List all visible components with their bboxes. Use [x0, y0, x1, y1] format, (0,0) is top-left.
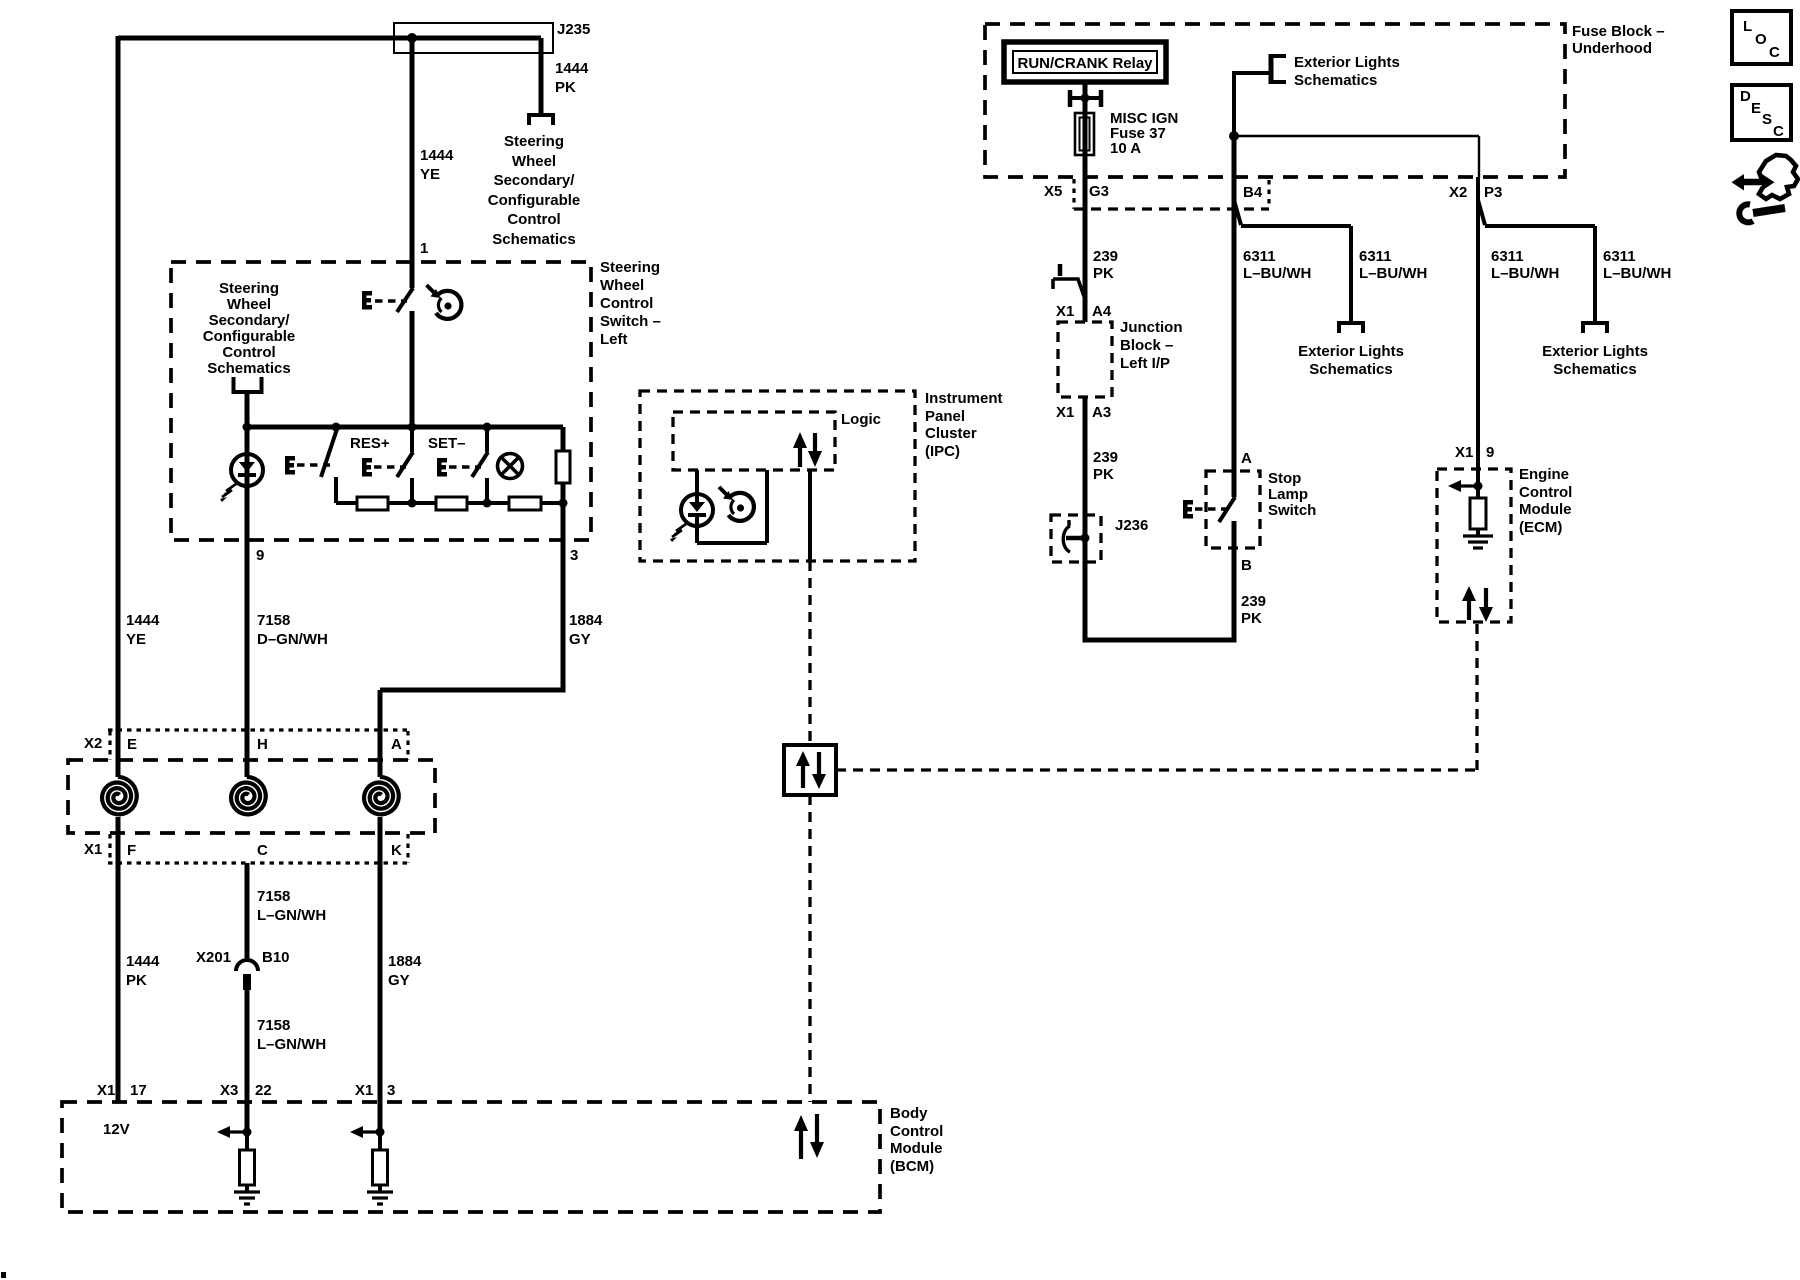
connector row X1 (F C K): [108, 861, 408, 864]
IPC gauge icon: [719, 487, 754, 521]
svg-text:9: 9: [256, 547, 264, 564]
svg-text:D: D: [1740, 88, 1751, 105]
svg-text:7158: 7158: [257, 888, 290, 905]
BCM input R network 2: [350, 1126, 393, 1204]
relay output terminal: [1068, 90, 1103, 107]
svg-text:P3: P3: [1484, 184, 1502, 201]
svg-text:A4: A4: [1092, 303, 1112, 320]
svg-text:X2: X2: [1449, 184, 1467, 201]
svg-text:X2: X2: [84, 735, 102, 752]
junction dot ladder 1: [408, 499, 417, 508]
off-page bracket to steering wheel schematics (top): [527, 115, 555, 125]
svg-text:B4: B4: [1243, 184, 1263, 201]
svg-text:SET–: SET–: [428, 435, 466, 452]
connector J235 box: [394, 23, 553, 53]
svg-text:YE: YE: [420, 166, 440, 183]
svg-text:Module: Module: [890, 1140, 943, 1157]
fuse MISC IGN 37: [1075, 113, 1094, 155]
svg-text:(IPC): (IPC): [925, 443, 960, 460]
svg-text:Cluster: Cluster: [925, 425, 977, 442]
svg-text:L–BU/WH: L–BU/WH: [1491, 265, 1559, 282]
svg-text:L–BU/WH: L–BU/WH: [1243, 265, 1311, 282]
junction dot ladder 3: [559, 499, 568, 508]
svg-text:X1: X1: [355, 1082, 373, 1099]
svg-text:Configurable: Configurable: [203, 328, 296, 345]
IPC serial wire: [808, 470, 812, 561]
logic box: [673, 412, 835, 470]
svg-text:Secondary/: Secondary/: [209, 312, 291, 329]
branch to exterior lights (right): [1485, 226, 1595, 323]
wire left main vertical 1444 YE/PK: [116, 36, 121, 777]
lamp (illumination): [498, 454, 523, 479]
coil (clockspring) 1: [102, 777, 137, 815]
svg-text:GY: GY: [388, 972, 410, 989]
wire from S1 to bus: [410, 311, 415, 427]
svg-text:C: C: [1773, 123, 1784, 140]
svg-text:H: H: [257, 736, 268, 753]
svg-text:E: E: [1751, 100, 1761, 117]
svg-text:1884: 1884: [388, 953, 422, 970]
svg-text:Schematics: Schematics: [207, 360, 290, 377]
svg-text:7158: 7158: [257, 612, 290, 629]
svg-text:(BCM): (BCM): [890, 1158, 934, 1175]
svg-text:Stop: Stop: [1268, 470, 1301, 487]
svg-text:J236: J236: [1115, 517, 1148, 534]
resistor R1: [357, 497, 388, 510]
svg-text:PK: PK: [1093, 265, 1114, 282]
svg-text:E: E: [127, 736, 137, 753]
svg-text:D–GN/WH: D–GN/WH: [257, 631, 328, 648]
svg-text:Engine: Engine: [1519, 466, 1569, 483]
junction block left IP box: [1058, 322, 1112, 397]
svg-text:239: 239: [1093, 248, 1118, 265]
svg-text:X1: X1: [1056, 404, 1074, 421]
svg-text:Wheel: Wheel: [512, 153, 556, 170]
svg-text:L–BU/WH: L–BU/WH: [1359, 265, 1427, 282]
RUN/CRANK relay box: [1004, 42, 1166, 82]
svg-text:1884: 1884: [569, 612, 603, 629]
BCM input R network 1: [217, 1126, 260, 1204]
svg-text:Schematics: Schematics: [1309, 361, 1392, 378]
svg-text:X1: X1: [84, 841, 102, 858]
gauge icon (cruise control): [427, 285, 462, 319]
svg-text:239: 239: [1093, 449, 1118, 466]
logic serial arrows: [793, 432, 822, 467]
svg-text:Steering: Steering: [504, 133, 564, 150]
resistor R3: [509, 497, 541, 510]
switch S1 (cruise on/off) blade: [397, 288, 413, 312]
svg-text:L–BU/WH: L–BU/WH: [1603, 265, 1671, 282]
steering wheel control switch box: [171, 262, 591, 540]
inline connector X201 B10: [236, 863, 258, 1132]
instrument panel cluster box: [640, 391, 915, 561]
svg-text:Exterior Lights: Exterior Lights: [1298, 343, 1404, 360]
svg-text:(ECM): (ECM): [1519, 519, 1562, 536]
svg-text:Left I/P: Left I/P: [1120, 355, 1170, 372]
svg-text:GY: GY: [569, 631, 591, 648]
svg-text:6311: 6311: [1359, 248, 1392, 265]
coil (clockspring) 2: [231, 777, 266, 815]
connector row X2 (E H A): [108, 728, 408, 731]
svg-text:Schematics: Schematics: [492, 231, 575, 248]
wire 1444 PK drop from J235: [539, 38, 544, 113]
wire bracket to B4: [1234, 71, 1271, 136]
svg-text:Block –: Block –: [1120, 337, 1173, 354]
node junction dot on J235 bus: [407, 33, 417, 43]
svg-text:S: S: [1762, 111, 1772, 128]
svg-text:PK: PK: [555, 79, 576, 96]
junction dot bus SET: [483, 423, 492, 432]
svg-text:Control: Control: [1519, 484, 1572, 501]
svg-text:Control: Control: [507, 211, 560, 228]
switch S2 (unlabeled): [321, 429, 337, 477]
svg-text:Switch –: Switch –: [600, 313, 661, 330]
svg-text:Panel: Panel: [925, 408, 965, 425]
connector row X5: [1072, 179, 1075, 209]
body control module box: [62, 1102, 880, 1212]
thin wire across fuse block to X2: [1234, 136, 1479, 178]
svg-text:22: 22: [255, 1082, 272, 1099]
svg-text:G3: G3: [1089, 183, 1109, 200]
svg-text:Exterior Lights: Exterior Lights: [1294, 54, 1400, 71]
junction dot bus S2: [332, 423, 341, 432]
svg-text:Lamp: Lamp: [1268, 486, 1308, 503]
exterior lights feed bracket (top): [1269, 54, 1274, 84]
svg-text:Switch: Switch: [1268, 502, 1316, 519]
serial data node box: [784, 745, 836, 795]
svg-text:B10: B10: [262, 949, 290, 966]
junction dot ladder 2: [483, 499, 492, 508]
resistor R2: [436, 497, 467, 510]
svg-text:Left: Left: [600, 331, 628, 348]
wire top horizontal 1444 YE feed: [118, 36, 541, 41]
svg-text:6311: 6311: [1491, 248, 1524, 265]
coil (clockspring) 3: [364, 777, 399, 815]
svg-text:Body: Body: [890, 1105, 928, 1122]
DESC icon: [1732, 85, 1791, 140]
wire bracket to bus: [245, 392, 250, 427]
svg-text:239: 239: [1241, 593, 1266, 610]
svg-text:B: B: [1241, 557, 1252, 574]
LOC icon: [1732, 11, 1791, 64]
svg-text:Steering: Steering: [219, 280, 279, 297]
svg-text:6311: 6311: [1603, 248, 1636, 265]
schematics reference bracket inside box: [203, 280, 296, 377]
svg-text:1444: 1444: [126, 612, 160, 629]
page corner dot: [1, 1272, 6, 1278]
svg-text:Underhood: Underhood: [1572, 40, 1652, 57]
svg-text:7158: 7158: [257, 1017, 290, 1034]
wire 1884 GY out of pin 3: [380, 503, 563, 690]
svg-text:PK: PK: [1241, 610, 1262, 627]
junction dot B4 branch: [1229, 131, 1239, 141]
svg-text:Secondary/: Secondary/: [494, 172, 576, 189]
svg-text:C: C: [257, 842, 268, 859]
svg-text:X5: X5: [1044, 183, 1062, 200]
svg-text:Exterior Lights: Exterior Lights: [1542, 343, 1648, 360]
svg-text:Instrument: Instrument: [925, 390, 1003, 407]
svg-text:X1: X1: [1455, 444, 1473, 461]
svg-text:Schematics: Schematics: [1294, 72, 1377, 89]
SIR coil box: [68, 760, 435, 833]
svg-text:X1: X1: [97, 1082, 115, 1099]
svg-text:Configurable: Configurable: [488, 192, 581, 209]
svg-text:Fuse Block –: Fuse Block –: [1572, 23, 1665, 40]
svg-text:A: A: [391, 736, 402, 753]
svg-text:Control: Control: [222, 344, 275, 361]
inline connector at X1 A4: [1053, 264, 1086, 302]
RIGHT SECTION: fuse block underhood: [985, 24, 1565, 177]
wire P3 down to ECM: [1476, 177, 1480, 486]
svg-text:X201: X201: [196, 949, 231, 966]
E terminal of S1: [362, 291, 372, 310]
svg-text:PK: PK: [126, 972, 147, 989]
svg-text:L–GN/WH: L–GN/WH: [257, 1036, 326, 1053]
wire B4 down to stop lamp switch: [1232, 136, 1237, 497]
splice J236: [1051, 515, 1101, 562]
svg-text:X3: X3: [220, 1082, 238, 1099]
svg-text:10 A: 10 A: [1110, 140, 1141, 157]
svg-text:Logic: Logic: [841, 411, 881, 428]
bus inside switch assembly: [247, 425, 563, 430]
svg-text:1444: 1444: [555, 60, 589, 77]
dashed serial data lines: [808, 561, 811, 745]
svg-text:Control: Control: [600, 295, 653, 312]
wire relay to fuse to G3: [1083, 82, 1088, 322]
svg-text:6311: 6311: [1243, 248, 1276, 265]
junction dot bus left: [243, 423, 252, 432]
branch to exterior lights (left): [1241, 226, 1351, 323]
svg-text:Module: Module: [1519, 501, 1572, 518]
svg-text:L–GN/WH: L–GN/WH: [257, 907, 326, 924]
svg-text:A: A: [1241, 450, 1252, 467]
svg-text:Wheel: Wheel: [227, 296, 271, 313]
svg-text:PK: PK: [1093, 466, 1114, 483]
svg-text:17: 17: [130, 1082, 147, 1099]
wire 1444 YE down from J235: [410, 36, 415, 288]
bottom resistor ladder wires: [336, 501, 563, 505]
svg-text:L: L: [1743, 18, 1752, 35]
resistor R4 vertical: [561, 427, 566, 503]
svg-text:C: C: [1769, 44, 1780, 61]
svg-text:O: O: [1755, 31, 1767, 48]
service icon (arrows + wrench): [1732, 155, 1799, 222]
svg-text:3: 3: [570, 547, 578, 564]
svg-text:12V: 12V: [103, 1121, 130, 1138]
svg-text:Schematics: Schematics: [1553, 361, 1636, 378]
svg-text:Steering: Steering: [600, 259, 660, 276]
svg-text:A3: A3: [1092, 404, 1111, 421]
svg-text:RES+: RES+: [350, 435, 390, 452]
BCM serial data arrows: [794, 1114, 824, 1159]
svg-text:J235: J235: [557, 21, 590, 38]
svg-text:9: 9: [1486, 444, 1494, 461]
junction dot bus S1/RES: [408, 423, 417, 432]
svg-text:YE: YE: [126, 631, 146, 648]
IPC LED indicator: [670, 470, 767, 543]
LED indicator in switch assembly: [220, 427, 263, 777]
svg-text:1: 1: [420, 240, 428, 257]
svg-text:RUN/CRANK Relay: RUN/CRANK Relay: [1017, 55, 1153, 72]
wire junction block to splice to stop lamp B: [1085, 397, 1234, 640]
svg-text:Control: Control: [890, 1123, 943, 1140]
svg-text:X1: X1: [1056, 303, 1074, 320]
svg-text:3: 3: [387, 1082, 395, 1099]
svg-text:Wheel: Wheel: [600, 277, 644, 294]
svg-text:1444: 1444: [126, 953, 160, 970]
svg-text:1444: 1444: [420, 147, 454, 164]
svg-text:K: K: [391, 842, 402, 859]
svg-text:Junction: Junction: [1120, 319, 1183, 336]
svg-text:F: F: [127, 842, 136, 859]
